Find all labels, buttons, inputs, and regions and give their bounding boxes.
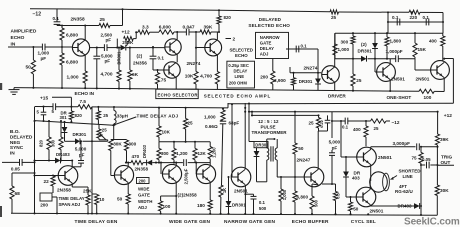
- svg-text:DRIVER: DRIVER: [328, 94, 346, 99]
- label 200: [260, 75, 268, 80]
- svg-text:25: 25: [356, 78, 362, 83]
- svg-text:25: 25: [374, 126, 379, 131]
- label 2N358: [71, 16, 85, 22]
- svg-text:3,000pF: 3,000pF: [393, 141, 411, 146]
- label 1K rot: [222, 188, 227, 193]
- svg-text:(2): (2): [137, 54, 143, 59]
- svg-text:DR301: DR301: [117, 51, 122, 65]
- resistor 1,000 ng column: [219, 108, 226, 214]
- wire line y115.4: [251, 111, 320, 117]
- wire: [436, 165, 438, 185]
- svg-text:SPAN ADJ: SPAN ADJ: [59, 202, 81, 207]
- inductor 33uH: [111, 107, 127, 140]
- wire trig out: [437, 164, 454, 166]
- svg-text:DELAYED: DELAYED: [259, 17, 282, 22]
- label 3,900: [274, 78, 286, 83]
- wire T13 emitter: [244, 185, 253, 214]
- label -12 top left: [33, 11, 42, 17]
- svg-text:1,200: 1,200: [211, 147, 216, 158]
- wire T1 emitter: [84, 55, 86, 71]
- resistor 3.3: [138, 30, 150, 34]
- diode DR301 vert os: [372, 33, 378, 59]
- resistor 25 v: [96, 107, 100, 124]
- label 6,800 eb: [297, 195, 309, 200]
- svg-text:TRANSFORMER: TRANSFORMER: [252, 130, 288, 135]
- svg-text:30K: 30K: [440, 188, 449, 193]
- resistor 820 tdg: [47, 120, 51, 162]
- label 0.5 rot: [335, 192, 340, 198]
- label DR301 ng: [232, 203, 246, 208]
- label 1,000pF: [386, 49, 403, 54]
- wire one-shot out: [443, 58, 453, 104]
- transistor 2N501 T7: [431, 61, 450, 80]
- transistor 2N274 T4: [205, 39, 222, 56]
- label 0.05: [11, 166, 20, 171]
- svg-text:10: 10: [99, 197, 105, 202]
- capacitor 5,000pF knot: [72, 141, 84, 167]
- svg-text:ADJ: ADJ: [138, 205, 147, 210]
- svg-text:50: 50: [298, 146, 304, 151]
- wire T2-T3: [176, 55, 178, 63]
- svg-text:1,800: 1,800: [390, 39, 402, 44]
- wire T3 base: [153, 69, 164, 71]
- transistor 2N358 T8: [58, 166, 78, 186]
- wire T10 base: [155, 162, 162, 174]
- label +12 r: [444, 113, 452, 119]
- capacitor 5,000pF eb: [322, 112, 335, 184]
- junction: [42, 120, 72, 123]
- label SHORTED LINE: [399, 169, 422, 179]
- junction: [352, 58, 388, 60]
- pot wiper: [100, 134, 106, 140]
- wire T7 emitter drop: [443, 78, 445, 92]
- resistor 400: [441, 33, 445, 61]
- diode DR301 knot: [75, 138, 80, 144]
- wire ground bus: [14, 88, 444, 92]
- label DR301: [299, 79, 313, 84]
- svg-text:ECHO: ECHO: [11, 35, 25, 41]
- wire T11 base: [195, 162, 197, 174]
- svg-text:400: 400: [429, 39, 437, 44]
- label 39K: [440, 137, 449, 142]
- label 0.1: [423, 15, 430, 20]
- svg-text:820: 820: [39, 139, 44, 147]
- label 500 rot: [313, 199, 318, 207]
- label SELECTED ECHO: [248, 23, 290, 28]
- label 10: [99, 197, 105, 202]
- label pulse transformer: [252, 119, 288, 135]
- wire: [248, 103, 254, 142]
- svg-text:ONE-SHOT: ONE-SHOT: [387, 95, 412, 100]
- wire node: [57, 25, 123, 27]
- wire left column: [33, 120, 35, 213]
- capacitor 0.1 c: [296, 46, 299, 53]
- wire cycl base feed: [340, 120, 357, 157]
- wire T12 collector: [317, 131, 319, 170]
- label 2,500 pF: [101, 32, 113, 42]
- resistor 25 cycl: [371, 119, 387, 123]
- capacitor 0.1 500: [251, 194, 257, 214]
- svg-text:2N358: 2N358: [135, 166, 149, 171]
- label 10K wg: [162, 130, 171, 135]
- wire bus2 to line: [227, 103, 229, 108]
- resistor 200: [271, 59, 275, 90]
- svg-text:25: 25: [309, 120, 315, 125]
- resistor 3,900: [291, 73, 295, 90]
- svg-text:2: 2: [233, 37, 236, 42]
- label 0.1: [53, 16, 60, 21]
- svg-text:25: 25: [188, 120, 194, 125]
- svg-text:0.25μ SEC: 0.25μ SEC: [228, 63, 249, 68]
- resistor 75 trig: [419, 146, 423, 215]
- junction: [42, 106, 115, 109]
- junction: [116, 47, 154, 49]
- svg-text:SeekIC.com: SeekIC.com: [404, 216, 460, 227]
- junction: [152, 46, 154, 48]
- label 50 wg: [117, 197, 123, 202]
- junction: [352, 32, 416, 34]
- resistor 400 cycl: [364, 120, 368, 146]
- svg-text:12K: 12K: [198, 151, 207, 156]
- svg-text:IN: IN: [11, 41, 16, 47]
- transistor 2N358 T9: [114, 165, 133, 184]
- svg-text:1,000: 1,000: [38, 51, 50, 56]
- capacitor 0.1 bypass b: [426, 19, 429, 26]
- label 7.5: [80, 99, 87, 104]
- label (2) 2N356: [133, 54, 147, 66]
- label 2N501 T15: [378, 155, 392, 160]
- svg-text:3,900: 3,900: [274, 78, 286, 83]
- wire: [32, 74, 34, 88]
- wire pt bottom: [257, 160, 267, 182]
- svg-text:12 : 5 : 12: 12 : 5 : 12: [258, 119, 279, 124]
- wire T1 collector: [84, 26, 86, 40]
- resistor 25 eb: [316, 115, 320, 131]
- resistor 30K: [435, 185, 439, 215]
- label 820 rot tdg: [39, 139, 44, 147]
- wire T8 collector: [71, 159, 73, 167]
- svg-text:NARROW GATE GEN: NARROW GATE GEN: [224, 219, 275, 225]
- wire T8 base: [33, 174, 58, 176]
- transistor 2N501 T6: [377, 63, 396, 82]
- label 25 pot: [102, 128, 107, 133]
- wire T5 collector: [334, 33, 336, 67]
- svg-text:7.5: 7.5: [80, 99, 87, 104]
- svg-text:+12: +12: [122, 29, 130, 35]
- label 1,200 rot: [211, 147, 216, 158]
- box delay line: [227, 61, 255, 88]
- label 4FT RG-62/U: [395, 184, 413, 194]
- label DRIVER: [328, 94, 346, 99]
- wire T6 base: [375, 59, 377, 72]
- wire T11 collector: [209, 159, 211, 166]
- pot wiper arrow: [127, 40, 130, 46]
- label 2N501 T13: [234, 188, 248, 193]
- svg-text:1,000pF: 1,000pF: [386, 49, 403, 54]
- svg-text:DELAY: DELAY: [260, 46, 274, 51]
- label 39K: [204, 25, 213, 31]
- transformer secondary: [273, 138, 277, 177]
- svg-text:2N247: 2N247: [297, 158, 311, 163]
- junction: [96, 47, 98, 49]
- wire T4 collector: [216, 32, 218, 40]
- label 470: [132, 154, 140, 159]
- svg-text:6,000: 6,000: [159, 25, 171, 31]
- wire 3000pf end: [436, 146, 438, 148]
- wire T7 base: [415, 59, 431, 70]
- transformer primary: [267, 139, 275, 160]
- wire T2 collector: [176, 32, 178, 39]
- capacitor 5 a: [41, 107, 47, 122]
- resistor 6,800 upper: [60, 26, 64, 48]
- label 3.3: [142, 25, 149, 31]
- svg-text:6,800: 6,800: [297, 195, 309, 200]
- capacitor 5 series: [53, 103, 56, 110]
- svg-text:GATE: GATE: [138, 193, 150, 198]
- capacitor wg: [184, 159, 187, 166]
- label 0.1: [158, 56, 165, 61]
- label WIDE GATE WIDTH ADJ: [138, 186, 152, 210]
- resistor 39K: [435, 134, 439, 145]
- label 180: [197, 203, 205, 208]
- label 25: [100, 17, 106, 23]
- svg-text:0.1: 0.1: [53, 16, 60, 21]
- resistor 1,000 os: [333, 33, 337, 59]
- capacitor 0.22: [319, 115, 331, 131]
- svg-text:2,500: 2,500: [101, 32, 113, 37]
- resistor 68: [10, 186, 14, 213]
- label 25 os: [356, 78, 362, 83]
- svg-text:LINE: LINE: [403, 174, 413, 179]
- resistor 50: [31, 60, 35, 74]
- svg-text:2N358: 2N358: [71, 16, 85, 22]
- svg-text:SYNC: SYNC: [10, 145, 24, 151]
- label 1,000 pF: [38, 51, 50, 61]
- wire: [91, 107, 93, 214]
- svg-text:0.05: 0.05: [11, 166, 20, 171]
- label (2)2N358: [178, 193, 198, 198]
- capacitor 3,000pF: [417, 143, 420, 150]
- svg-text:OUT: OUT: [441, 160, 451, 165]
- svg-text:SELECTED ECHO AMPL: SELECTED ECHO AMPL: [204, 93, 271, 98]
- capacitor 1,000 pF input: [42, 44, 45, 51]
- label 400 cycl: [353, 127, 361, 132]
- resistor 6,000: [159, 30, 174, 34]
- svg-text:0.22: 0.22: [319, 119, 324, 128]
- svg-text:6,800: 6,800: [66, 59, 78, 65]
- svg-text:33μH: 33μH: [117, 114, 129, 119]
- svg-text:470: 470: [132, 154, 140, 159]
- label 5: [37, 110, 40, 115]
- label 30K: [440, 188, 449, 193]
- label 820: [75, 113, 83, 118]
- resistor 10K wg: [157, 107, 161, 142]
- resistor 4,700: [117, 48, 121, 89]
- wire: [387, 12, 389, 33]
- svg-text:100: 100: [163, 204, 171, 209]
- resistor 25K v: [86, 187, 90, 214]
- resistor 300 wg: [124, 140, 128, 163]
- svg-text:0.1: 0.1: [342, 124, 349, 129]
- junction: [61, 8, 124, 26]
- label 100: [424, 95, 432, 100]
- wire input: [8, 46, 72, 48]
- resistor 6,800 eb: [293, 177, 297, 214]
- label TIME DELAY GEN: [75, 219, 118, 225]
- label 2N247: [297, 158, 311, 163]
- wire T9 collector: [125, 162, 129, 168]
- transistor 2N274 T5 driver: [322, 66, 340, 84]
- resistor 22: [51, 174, 55, 193]
- resistor 25 os: [351, 59, 355, 91]
- resistor 75: [155, 69, 159, 89]
- svg-text:PULSE: PULSE: [261, 125, 276, 130]
- svg-text:30K: 30K: [113, 141, 122, 146]
- svg-text:DR403: DR403: [56, 152, 70, 157]
- svg-text:−12: −12: [33, 11, 42, 17]
- wire bus3: [35, 121, 115, 127]
- box DR301 pt: [254, 142, 268, 148]
- svg-text:403: 403: [352, 176, 360, 181]
- svg-text:820: 820: [75, 113, 83, 118]
- junction: [61, 46, 63, 48]
- svg-text:SELECTED ECHO: SELECTED ECHO: [248, 23, 290, 28]
- wire T13 base: [231, 103, 233, 177]
- label 5: [52, 109, 55, 114]
- label 0.05 trig: [422, 157, 431, 162]
- wire: [251, 112, 253, 116]
- svg-text:(2)2N358: (2)2N358: [178, 193, 198, 198]
- label DR403 tdg: [56, 152, 70, 157]
- resistor 39K: [200, 30, 211, 34]
- resistor 820 top: [217, 10, 221, 32]
- svg-text:0.66Ω: 0.66Ω: [205, 124, 218, 129]
- svg-text:DR301: DR301: [358, 49, 373, 54]
- transistor 2N501 T15: [357, 147, 377, 167]
- svg-text:50: 50: [353, 207, 359, 212]
- label 0.1 cycl: [342, 124, 349, 129]
- resistor 7.5: [78, 105, 92, 109]
- wire T15 emitter: [370, 165, 372, 181]
- svg-text:0.1: 0.1: [301, 44, 308, 49]
- label AMPLIFIED ECHO IN: [11, 28, 37, 47]
- junction: [32, 46, 34, 48]
- label DR403 rot: [142, 144, 147, 158]
- wire T16 emitter: [0, 0, 1, 1]
- svg-text:−12: −12: [392, 120, 400, 125]
- capacitor 1,000pF os: [396, 55, 399, 62]
- wire top -12 rail: [30, 9, 443, 13]
- svg-text:DR403: DR403: [398, 204, 413, 209]
- capacitor 2,500 pF: [104, 44, 107, 51]
- junction: [387, 11, 444, 23]
- label 220: [410, 15, 418, 20]
- scan mark left: [0, 83, 2, 217]
- label 1,200: [176, 151, 188, 156]
- label DR 301: [60, 110, 68, 120]
- label 0.1 500: [259, 200, 267, 211]
- capacitor 0.05 trig: [427, 162, 430, 169]
- svg-text:25: 25: [100, 17, 106, 23]
- svg-text:10K: 10K: [185, 74, 194, 80]
- svg-text:TIME DELAY ADJ: TIME DELAY ADJ: [137, 113, 179, 118]
- wire T3 emitter: [175, 78, 177, 90]
- wire DR403 in: [33, 159, 72, 161]
- svg-text:1,000: 1,000: [204, 115, 216, 120]
- transistor 2N501 T16: [356, 187, 376, 207]
- label +12: [122, 29, 130, 35]
- label DR 403: [352, 170, 361, 180]
- wire T8 emitter: [72, 183, 88, 187]
- resistor 50 wg: [126, 194, 130, 214]
- capacitor 0.1 top: [54, 9, 61, 26]
- resistor 25 pot: [97, 124, 101, 139]
- diode DR301 amp: [315, 49, 321, 90]
- label DR403 out: [398, 204, 413, 209]
- label DELAYED: [259, 17, 282, 22]
- svg-text:WIDTH: WIDTH: [138, 199, 152, 204]
- wire T13 collector: [244, 103, 246, 169]
- resistor 50 cycl: [348, 196, 352, 214]
- callout arrow: [112, 117, 136, 126]
- label 75 trig: [412, 155, 418, 160]
- resistor 25: [99, 23, 110, 27]
- svg-text:+15: +15: [40, 95, 48, 101]
- label 300: [128, 141, 136, 146]
- resistor 10: [92, 194, 99, 214]
- resistor 820 v: [69, 107, 73, 123]
- svg-text:GATE: GATE: [260, 41, 272, 46]
- label 50 ng: [298, 146, 304, 151]
- svg-text:ECHO IN: ECHO IN: [75, 91, 95, 96]
- wire bus2 left drop: [34, 107, 36, 122]
- svg-text:500: 500: [313, 199, 318, 207]
- resistor 220 top right: [409, 10, 420, 14]
- label TIME DELAY ADJ: [137, 113, 179, 118]
- svg-text:pF: pF: [41, 56, 47, 61]
- wire +15 feed: [52, 97, 71, 106]
- svg-text:TIME DELAY GEN: TIME DELAY GEN: [75, 219, 118, 225]
- svg-text:2N356: 2N356: [133, 60, 147, 65]
- svg-text:200: 200: [260, 75, 268, 80]
- label 25 cycl: [374, 126, 379, 131]
- svg-text:IN: IN: [10, 150, 15, 156]
- svg-text:TRIG: TRIG: [441, 155, 453, 160]
- wire +12 drop: [437, 111, 439, 134]
- label 25: [103, 113, 108, 118]
- svg-text:220: 220: [410, 15, 418, 20]
- svg-text:2N501: 2N501: [416, 76, 430, 81]
- label 1,800: [390, 39, 402, 44]
- svg-text:2N501: 2N501: [234, 188, 248, 193]
- label 0.047: [183, 25, 195, 31]
- wire one-shot mid: [335, 58, 415, 60]
- label 15K: [418, 47, 427, 52]
- resistor 1,000 eb: [279, 177, 283, 214]
- label 0.25u SEC DELAY LINE 200 OHM: [228, 63, 249, 85]
- svg-text:B.O.: B.O.: [10, 129, 20, 135]
- wire T10 collector: [175, 162, 177, 167]
- terminal trig out: [0, 0, 1, 1]
- label WIDE GATE GEN: [169, 219, 210, 225]
- wire T4 base: [196, 47, 205, 49]
- svg-text:pF: pF: [79, 152, 85, 157]
- svg-text:1K: 1K: [222, 188, 227, 193]
- label ECHO IN: [75, 91, 95, 96]
- svg-text:400: 400: [353, 127, 361, 132]
- svg-text:50: 50: [117, 197, 123, 202]
- svg-text:2N501: 2N501: [391, 76, 405, 81]
